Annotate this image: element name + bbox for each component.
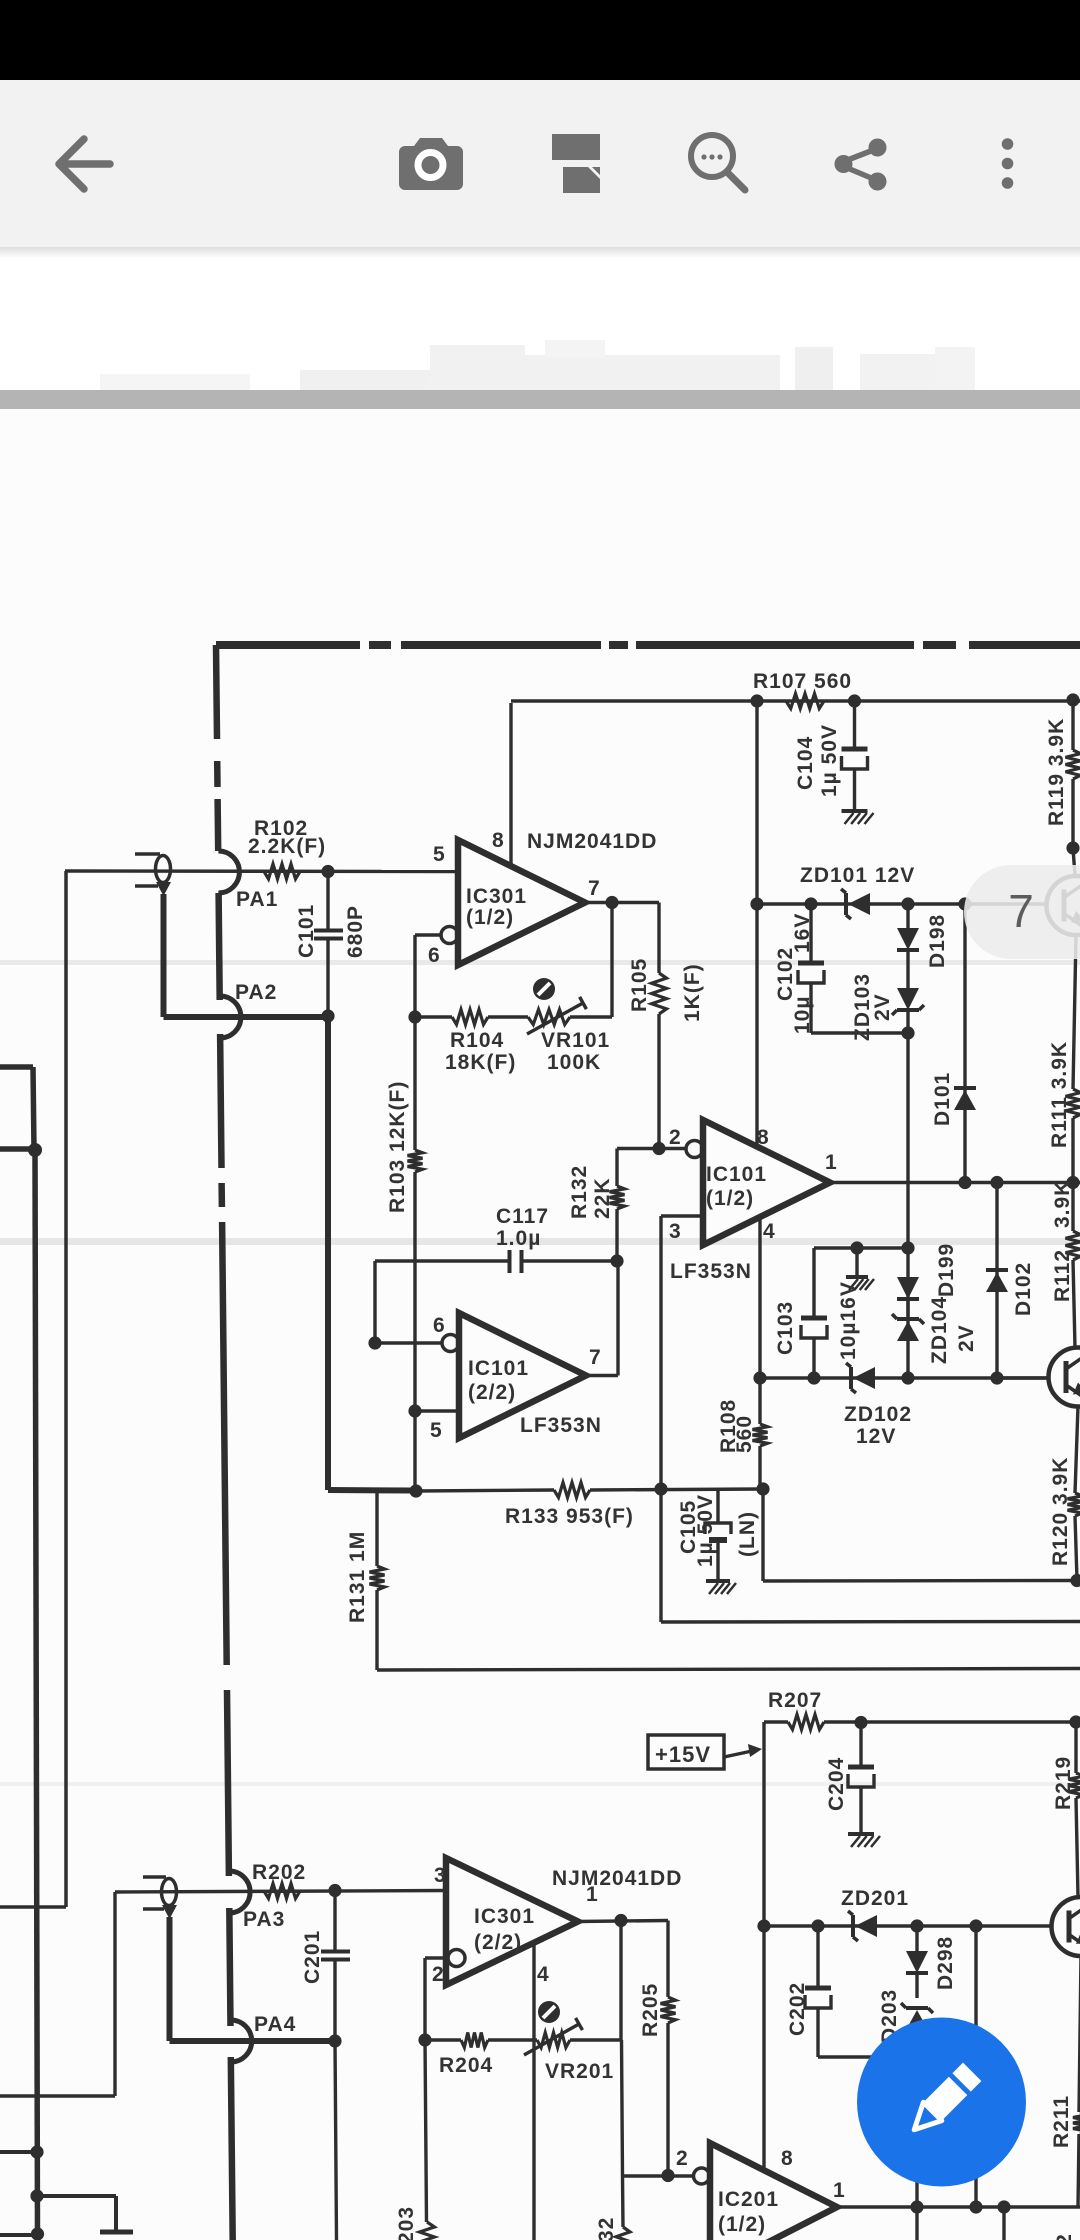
label R131 1M — [346, 1531, 369, 1623]
scrollbar page bubble — [964, 865, 1080, 959]
ground at C104 — [842, 811, 874, 824]
resistor R103 — [408, 1017, 423, 1492]
node emitter line top — [969, 1919, 982, 1932]
pin 3 label IC101a — [669, 1220, 682, 1243]
pin 4 label IC301b — [537, 1963, 550, 1986]
node R133 left — [409, 1484, 422, 1497]
label IC101b — [468, 1357, 529, 1404]
resistor R108 — [753, 1378, 768, 1489]
svg-text:1.0µ: 1.0µ — [496, 1227, 541, 1250]
svg-text:2: 2 — [669, 1126, 682, 1149]
pin 6 bubble IC101b — [442, 1335, 459, 1352]
wire R204 run — [425, 2038, 621, 2041]
wire pin4 IC301b down — [532, 1944, 535, 2240]
svg-text:R131 1M: R131 1M — [346, 1531, 369, 1623]
label IC301a — [466, 885, 527, 929]
terminal bar — [100, 2230, 133, 2235]
pin 1 label IC301b — [586, 1883, 599, 1906]
label R108 560 — [733, 1415, 756, 1453]
label D203 — [878, 1989, 901, 2043]
supply label +15V box — [648, 1735, 762, 1769]
svg-text:R133 953(F): R133 953(F) — [505, 1505, 634, 1528]
svg-text:8: 8 — [781, 2147, 794, 2170]
svg-text:R105: R105 — [628, 958, 651, 1012]
op-amp IC301 (2/2) triangle — [446, 1858, 578, 1985]
pin 2 label IC201 — [676, 2147, 689, 2170]
pin 8 label IC201 — [781, 2147, 794, 2170]
wire zener rail y1378 — [760, 1376, 1049, 1379]
paper fold line 3 — [0, 1782, 1080, 1786]
svg-text:R205: R205 — [639, 1983, 662, 2037]
label R232 — [595, 2217, 618, 2240]
resistor R107 — [786, 694, 824, 709]
wire pin2 IC301b to R204 node — [425, 1958, 448, 2040]
svg-text:IC101: IC101 — [468, 1357, 529, 1380]
node ZD103 top — [901, 897, 914, 910]
node feedback left — [408, 1010, 421, 1023]
svg-text:1K(F): 1K(F) — [681, 963, 704, 1022]
wire pin7 output down to feedback — [610, 903, 613, 1018]
op-amp IC201 (1/2) triangle — [710, 2143, 837, 2240]
resistor R219 — [1069, 1722, 1080, 1897]
wire shield bus down — [35, 1150, 38, 2240]
node rail/R119 — [1066, 693, 1079, 706]
label C101 — [295, 904, 318, 958]
label R112 value — [1051, 1180, 1074, 1228]
zener diode D203 — [901, 2003, 933, 2240]
wire IC201 output — [837, 2205, 1080, 2208]
wire pin5 IC101b — [415, 1409, 459, 1412]
wire shield tap 3 left — [0, 2233, 38, 2237]
svg-text:(2/2): (2/2) — [474, 1931, 522, 1954]
wire R133 right — [590, 1489, 763, 1490]
trimmer VR201 — [524, 2018, 582, 2055]
node R133/R108 — [756, 1482, 769, 1495]
wire output branch down — [1002, 2207, 1005, 2240]
wire jack1 tip to PA1 and IC301 pin5 — [65, 869, 458, 873]
svg-text:LF353N: LF353N — [520, 1414, 602, 1437]
wire IC101a output — [830, 1181, 1080, 1184]
label PA1 — [236, 888, 278, 911]
label NJM2041DD (IC301a) — [527, 830, 657, 853]
label R112 — [1051, 1249, 1074, 1302]
label ZD102 12V — [844, 1403, 912, 1448]
wire Q1 to R111 — [1073, 935, 1076, 1089]
svg-text:5: 5 — [430, 1419, 443, 1442]
wire pin6 to feedback node — [415, 935, 441, 1017]
svg-text:(1/2): (1/2) — [466, 906, 514, 929]
wire zener rail y904 — [757, 902, 1048, 905]
wire output down to VR201 — [619, 1921, 622, 2041]
label R219 — [1052, 1756, 1075, 1810]
svg-text:(1/2): (1/2) — [706, 1187, 754, 1210]
node output/right rail — [1066, 1176, 1079, 1189]
node C102 top — [804, 897, 817, 910]
svg-text:12V: 12V — [856, 1425, 896, 1448]
label R133 953(F) — [505, 1505, 634, 1528]
wire IC301b output — [578, 1921, 668, 1922]
svg-text:16V: 16V — [791, 913, 814, 953]
capacitor C105 — [705, 1489, 731, 1580]
toolbar icons — [0, 0, 1080, 260]
svg-text:3: 3 — [669, 1220, 682, 1243]
capacitor C104 — [842, 701, 868, 810]
share icon — [845, 149, 876, 180]
node pin5/R103 — [408, 1404, 421, 1417]
diode D198 — [897, 904, 919, 988]
svg-text:R219: R219 — [1052, 1756, 1075, 1810]
label R105 — [628, 958, 651, 1012]
svg-text:6: 6 — [433, 1314, 446, 1337]
white gap with faint print-through — [0, 258, 1080, 390]
svg-text:R211: R211 — [1050, 2095, 1073, 2148]
wire shield tap to terminal — [37, 2196, 116, 2230]
wire R133 left — [416, 1490, 554, 1491]
resistor R102 — [264, 864, 300, 879]
svg-text:1µ 50V: 1µ 50V — [694, 1494, 717, 1567]
wire thick bus C101 node down and right to R133 node — [328, 1016, 412, 1491]
svg-text:3: 3 — [434, 1864, 447, 1887]
svg-text:VR101: VR101 — [541, 1029, 610, 1052]
pin 2 bubble IC301b — [448, 1950, 465, 1967]
op-amp IC101 (2/2) triangle — [459, 1313, 586, 1438]
label R204 — [439, 2054, 493, 2077]
label R103 12K(F) — [386, 1081, 409, 1213]
label IC101a — [706, 1163, 767, 1210]
search icon — [691, 135, 745, 190]
label D199 — [935, 1243, 958, 1297]
svg-text:10µ16V: 10µ16V — [837, 1281, 860, 1360]
node R120 bottom — [1070, 1574, 1080, 1587]
wire shield box lower edge — [0, 1146, 35, 1152]
label C201 — [301, 1930, 324, 1984]
wire pin4 IC101a down — [758, 1218, 761, 1378]
node output branch — [997, 2200, 1010, 2213]
svg-text:2V: 2V — [955, 1324, 978, 1352]
label R107 560 — [753, 670, 852, 693]
zener diode ZD104 — [892, 1314, 924, 1341]
node R133/pin3 — [654, 1482, 667, 1495]
zener diode ZD201 — [848, 1911, 877, 1941]
node rail/R107 left — [750, 694, 763, 707]
resistor R202 — [264, 1884, 300, 1899]
zener diode ZD101 — [841, 889, 870, 919]
input jack J1 — [135, 854, 171, 896]
wire jack1 sleeve bus down — [161, 894, 167, 1017]
resistor R131 — [370, 1491, 385, 1670]
zener diode ZD102 — [846, 1363, 875, 1393]
wire R131 bottom long run — [377, 1669, 1080, 1671]
capacitor C201 — [321, 1891, 350, 2041]
node ZD104 bottom — [901, 1371, 914, 1384]
svg-text:5: 5 — [433, 843, 446, 866]
resistor R104 — [452, 1010, 488, 1025]
svg-text:PA1: PA1 — [236, 888, 278, 911]
diode D199 — [897, 1277, 919, 1318]
wire pin6 IC101b — [375, 1341, 442, 1344]
label ZD103 2V — [871, 993, 894, 1021]
svg-text:C101: C101 — [295, 904, 318, 958]
node D101 bottom — [958, 1176, 971, 1189]
label LF353N (IC101b) — [520, 1414, 602, 1437]
svg-text:(LN): (LN) — [736, 1511, 759, 1557]
wire pin3 run — [661, 1216, 703, 1489]
label D102 — [1012, 1262, 1035, 1316]
svg-text:ZD201: ZD201 — [841, 1887, 909, 1910]
faint print-through smudges — [100, 340, 975, 390]
svg-text:R111 3.9K: R111 3.9K — [1048, 1041, 1071, 1148]
label R120 3.9K — [1049, 1457, 1072, 1566]
svg-text:560: 560 — [733, 1415, 756, 1453]
node R105/pin2 — [652, 1142, 665, 1155]
capacitor C102 — [798, 904, 824, 1033]
pin 2 bubble IC101a — [686, 1141, 703, 1158]
svg-text:ZD102: ZD102 — [844, 1403, 912, 1426]
connector feed-through PA4 arc — [231, 2020, 252, 2062]
pin 5 label IC101b — [430, 1419, 443, 1442]
zener diode ZD103 — [892, 988, 924, 1378]
screw adjust mark VR201 — [538, 2001, 560, 2023]
resistor R204 — [461, 2033, 488, 2048]
svg-text:2: 2 — [676, 2147, 689, 2170]
label R202 — [252, 1861, 306, 1884]
transistor Q1 — [1047, 876, 1080, 935]
node D102 bottom — [990, 1371, 1003, 1384]
op-amp IC301 (1/2) triangle — [458, 840, 585, 965]
wire jack2 tip left down — [0, 1892, 115, 2096]
svg-text:+15V: +15V — [655, 1742, 711, 1767]
label R203 — [395, 2206, 418, 2240]
svg-text:D102: D102 — [1012, 1262, 1035, 1316]
wire Q2 base — [997, 1376, 1049, 1379]
svg-text:ZD104: ZD104 — [928, 1296, 951, 1364]
op-amp IC101 (1/2) triangle — [703, 1120, 830, 1245]
svg-text:7: 7 — [1008, 885, 1034, 937]
svg-text:3.9K: 3.9K — [1051, 1180, 1074, 1228]
wire Q3 base — [1050, 1924, 1053, 1927]
pin 2 label IC101a — [669, 1126, 682, 1149]
svg-text:C117: C117 — [496, 1205, 549, 1228]
node ground stub — [850, 1241, 863, 1254]
svg-text:R202: R202 — [252, 1861, 306, 1884]
node D101 top — [958, 897, 971, 910]
node shield tap 2 — [30, 2189, 43, 2202]
pin 7 label IC301a — [588, 877, 601, 900]
node R204 left — [418, 2033, 431, 2046]
trimmer VR101 — [527, 997, 586, 1034]
wire C103 top elbow — [814, 1246, 908, 1249]
wire R207 right run — [824, 1720, 1080, 1723]
board boundary left dash-dot line — [216, 645, 233, 2240]
node output/D203 line — [910, 2200, 923, 2213]
wire sleeve bus to C101 bottom node — [164, 1014, 329, 1020]
svg-text:4: 4 — [763, 1220, 776, 1243]
back arrow icon — [59, 139, 110, 189]
node C201 bottom/PA4 — [328, 2034, 341, 2047]
label R102 value — [248, 817, 326, 858]
svg-text:C103: C103 — [774, 1301, 797, 1355]
svg-text:R2: R2 — [1053, 2233, 1076, 2240]
svg-text:PA4: PA4 — [254, 2013, 296, 2036]
node R219 top — [1069, 1715, 1080, 1728]
label R119 3.9K — [1045, 718, 1068, 826]
svg-text:(2/2): (2/2) — [468, 1381, 516, 1404]
pin 2 label IC301b — [432, 1963, 445, 1986]
label D298 — [934, 1936, 957, 1990]
label ZD201 — [841, 1887, 909, 1910]
label R132 — [568, 1165, 591, 1219]
pin 6 inverting bubble IC301a — [441, 927, 458, 944]
label R205 — [639, 1983, 662, 2037]
label R132 22K — [591, 1177, 614, 1219]
node R119 bottom — [1066, 841, 1079, 854]
wire jack2 sleeve bus — [170, 1917, 336, 2041]
label C202 — [786, 1982, 809, 2036]
wire IC201 pin8 vertical — [762, 1926, 765, 2170]
svg-text:R120 3.9K: R120 3.9K — [1049, 1457, 1072, 1566]
svg-text:2V: 2V — [871, 993, 894, 1021]
node ZD103 bottom — [901, 1026, 914, 1039]
svg-text:D298: D298 — [934, 1936, 957, 1990]
gray divider bar — [0, 390, 1080, 409]
label D101 — [931, 1072, 954, 1126]
pin 2 bubble IC201 — [694, 2168, 710, 2184]
resistor R111 — [1066, 1089, 1080, 1183]
diode D298 — [906, 1926, 928, 1998]
wire pin3 node down long run — [661, 1489, 1080, 1622]
svg-text:1: 1 — [825, 1151, 838, 1174]
label C103 — [774, 1301, 797, 1355]
node C103 bottom — [807, 1371, 820, 1384]
label C102 10u — [791, 996, 814, 1034]
svg-text:7: 7 — [588, 877, 601, 900]
wire R108 node down run — [763, 1489, 1077, 1581]
paper fold line 2 — [0, 1238, 1080, 1245]
wire emitter line down — [974, 1926, 977, 2207]
svg-text:C202: C202 — [786, 1982, 809, 2036]
svg-text:R112: R112 — [1051, 1249, 1074, 1302]
node R132/C117 — [610, 1254, 623, 1267]
svg-text:IC301: IC301 — [466, 885, 527, 908]
label NJM2041DD (IC301b) — [552, 1867, 682, 1890]
resistor R132 — [610, 1149, 625, 1262]
wire R119 to Q1 — [1073, 848, 1075, 876]
transistor Q2 — [1049, 1348, 1080, 1407]
node R108 top — [753, 1371, 766, 1384]
capacitor C103 — [801, 1248, 827, 1378]
label R104 — [445, 1029, 516, 1074]
capacitor C117 — [375, 1250, 617, 1273]
connector feed-through PA1 arc — [218, 851, 239, 893]
pin 1 label IC201 — [833, 2179, 846, 2202]
node D102 top — [990, 1176, 1003, 1189]
status bar — [0, 0, 1080, 80]
label D198 — [926, 914, 949, 968]
svg-text:NJM2041DD: NJM2041DD — [552, 1867, 682, 1890]
floating action button — [857, 2018, 1026, 2187]
svg-text:8: 8 — [757, 1126, 770, 1149]
label PA2 — [235, 981, 277, 1004]
wire pin7 IC101b feedback up — [586, 1261, 618, 1376]
svg-text:R204: R204 — [439, 2054, 493, 2077]
svg-text:6: 6 — [428, 944, 441, 967]
resistor R119 — [1066, 700, 1080, 848]
node pin6 IC101b — [368, 1336, 381, 1349]
wire R207 corner — [764, 1722, 788, 1926]
svg-text:PA2: PA2 — [235, 981, 277, 1004]
wire pin7 output right — [585, 901, 659, 904]
label PA4 — [254, 2013, 296, 2036]
resistor R205 — [661, 1921, 676, 2176]
label 10u16V — [837, 1281, 860, 1360]
node y904 left — [750, 897, 763, 910]
label R108 — [717, 1399, 740, 1453]
svg-text:18K(F): 18K(F) — [445, 1051, 516, 1074]
label ZD101 12V — [800, 864, 915, 887]
label C102 — [774, 947, 797, 1001]
svg-text:R103 12K(F): R103 12K(F) — [386, 1081, 409, 1213]
wire C202 bottom run — [818, 2055, 917, 2058]
node R205 bottom — [661, 2169, 674, 2182]
svg-text:680P: 680P — [344, 905, 367, 958]
svg-text:(1/2): (1/2) — [718, 2213, 766, 2236]
label ZD104 — [928, 1296, 951, 1364]
wire pin8 V+ vertical — [509, 703, 512, 867]
paper fold line 1 — [0, 960, 1080, 965]
label ZD103 — [851, 973, 874, 1041]
label R207 — [768, 1689, 822, 1712]
node shield box — [28, 1143, 42, 1157]
label C117 — [496, 1205, 549, 1250]
svg-text:4: 4 — [537, 1963, 550, 1986]
svg-text:PA3: PA3 — [243, 1908, 285, 1931]
wire feedback run — [415, 1015, 612, 1018]
label C104 — [794, 736, 817, 790]
svg-text:D199: D199 — [935, 1243, 958, 1297]
pin 6 label IC101b — [433, 1314, 446, 1337]
node D298 top — [910, 1919, 923, 1932]
node C103 elbow right — [901, 1241, 914, 1254]
svg-text:IC201: IC201 — [718, 2188, 779, 2211]
capacitor C101 — [314, 872, 343, 1016]
label PA3 — [243, 1908, 285, 1931]
svg-text:R207: R207 — [768, 1689, 822, 1712]
connector feed-through PA3 arc — [229, 1871, 250, 1913]
label C102 16V — [791, 913, 814, 953]
label C101 value 680P — [344, 905, 367, 958]
node R202/C201 — [328, 1884, 341, 1897]
node at R102/C101 junction — [321, 865, 334, 878]
svg-text:IC301: IC301 — [474, 1905, 535, 1928]
resistor R133 — [554, 1483, 590, 1498]
label IC301b — [474, 1905, 535, 1954]
node +15V/ZD201 rail — [757, 1919, 770, 1932]
shield box upper — [0, 1067, 34, 1149]
svg-text:C102: C102 — [774, 947, 797, 1001]
camera icon — [399, 138, 463, 190]
svg-text:1µ 50V: 1µ 50V — [818, 724, 841, 797]
svg-text:203: 203 — [395, 2206, 418, 2240]
svg-text:100K: 100K — [547, 1051, 601, 1074]
resistor R232 — [616, 2227, 630, 2240]
capacitor C202 — [805, 1926, 831, 2057]
svg-text:D198: D198 — [926, 914, 949, 968]
node C204 top — [854, 1716, 867, 1729]
node output/emitter line — [969, 2200, 982, 2213]
svg-text:C204: C204 — [825, 1757, 848, 1811]
resistor R203 — [420, 2222, 435, 2240]
wire +V rail y701 — [511, 699, 1080, 702]
